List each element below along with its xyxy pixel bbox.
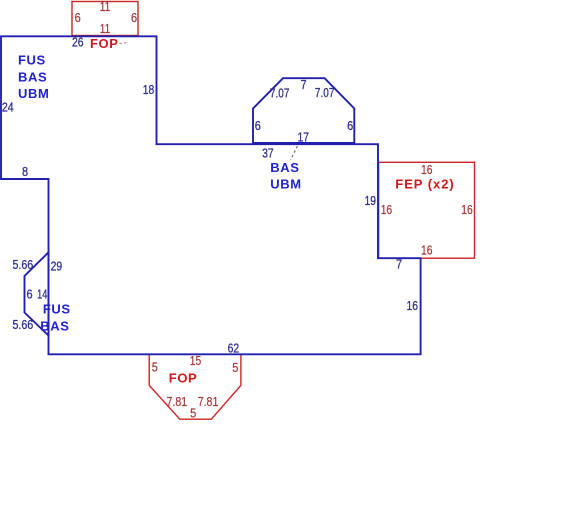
svg-text:16: 16: [421, 243, 433, 258]
svg-text:UBM: UBM: [18, 86, 49, 101]
svg-text:5.66: 5.66: [13, 317, 34, 332]
svg-text:18: 18: [143, 82, 155, 97]
svg-text:7: 7: [396, 257, 402, 272]
svg-text:7.07: 7.07: [315, 85, 335, 100]
svg-text:FEP (x2): FEP (x2): [395, 177, 454, 192]
svg-text:BAS: BAS: [270, 160, 299, 175]
svg-text:6: 6: [255, 118, 261, 133]
svg-text:16: 16: [381, 202, 393, 217]
svg-text:37: 37: [262, 146, 274, 161]
svg-text:11: 11: [100, 21, 111, 36]
svg-text:29: 29: [51, 259, 63, 274]
svg-text:5: 5: [190, 406, 196, 421]
svg-text:16: 16: [407, 298, 419, 313]
svg-text:26: 26: [72, 35, 84, 50]
svg-text:7: 7: [301, 77, 307, 92]
svg-text:FOP: FOP: [90, 36, 119, 51]
svg-text:5.66: 5.66: [13, 257, 34, 272]
svg-text:6: 6: [347, 118, 353, 133]
svg-text:FUS: FUS: [18, 52, 46, 67]
svg-text:BAS: BAS: [18, 70, 47, 85]
svg-text:UBM: UBM: [270, 177, 301, 192]
svg-text:11: 11: [100, 0, 111, 14]
svg-text:15: 15: [190, 353, 202, 368]
svg-text:6: 6: [27, 287, 33, 302]
svg-text:16: 16: [421, 162, 433, 177]
svg-text:BAS: BAS: [40, 319, 69, 334]
svg-text:19: 19: [365, 193, 377, 208]
svg-text:7.07: 7.07: [270, 85, 290, 100]
svg-text:5: 5: [232, 360, 238, 375]
svg-text:7.81: 7.81: [167, 394, 188, 409]
svg-text:FUS: FUS: [43, 302, 71, 317]
svg-text:24: 24: [2, 100, 14, 115]
svg-text:62: 62: [228, 340, 240, 355]
svg-text:16: 16: [461, 202, 473, 217]
svg-text:14: 14: [37, 287, 47, 302]
svg-text:17: 17: [298, 130, 310, 145]
svg-text:5: 5: [152, 360, 158, 375]
svg-text:6: 6: [75, 10, 81, 25]
svg-text:8: 8: [22, 164, 28, 179]
svg-text:FOP: FOP: [169, 370, 198, 385]
svg-text:6: 6: [131, 10, 137, 25]
svg-text:7.81: 7.81: [198, 394, 219, 409]
